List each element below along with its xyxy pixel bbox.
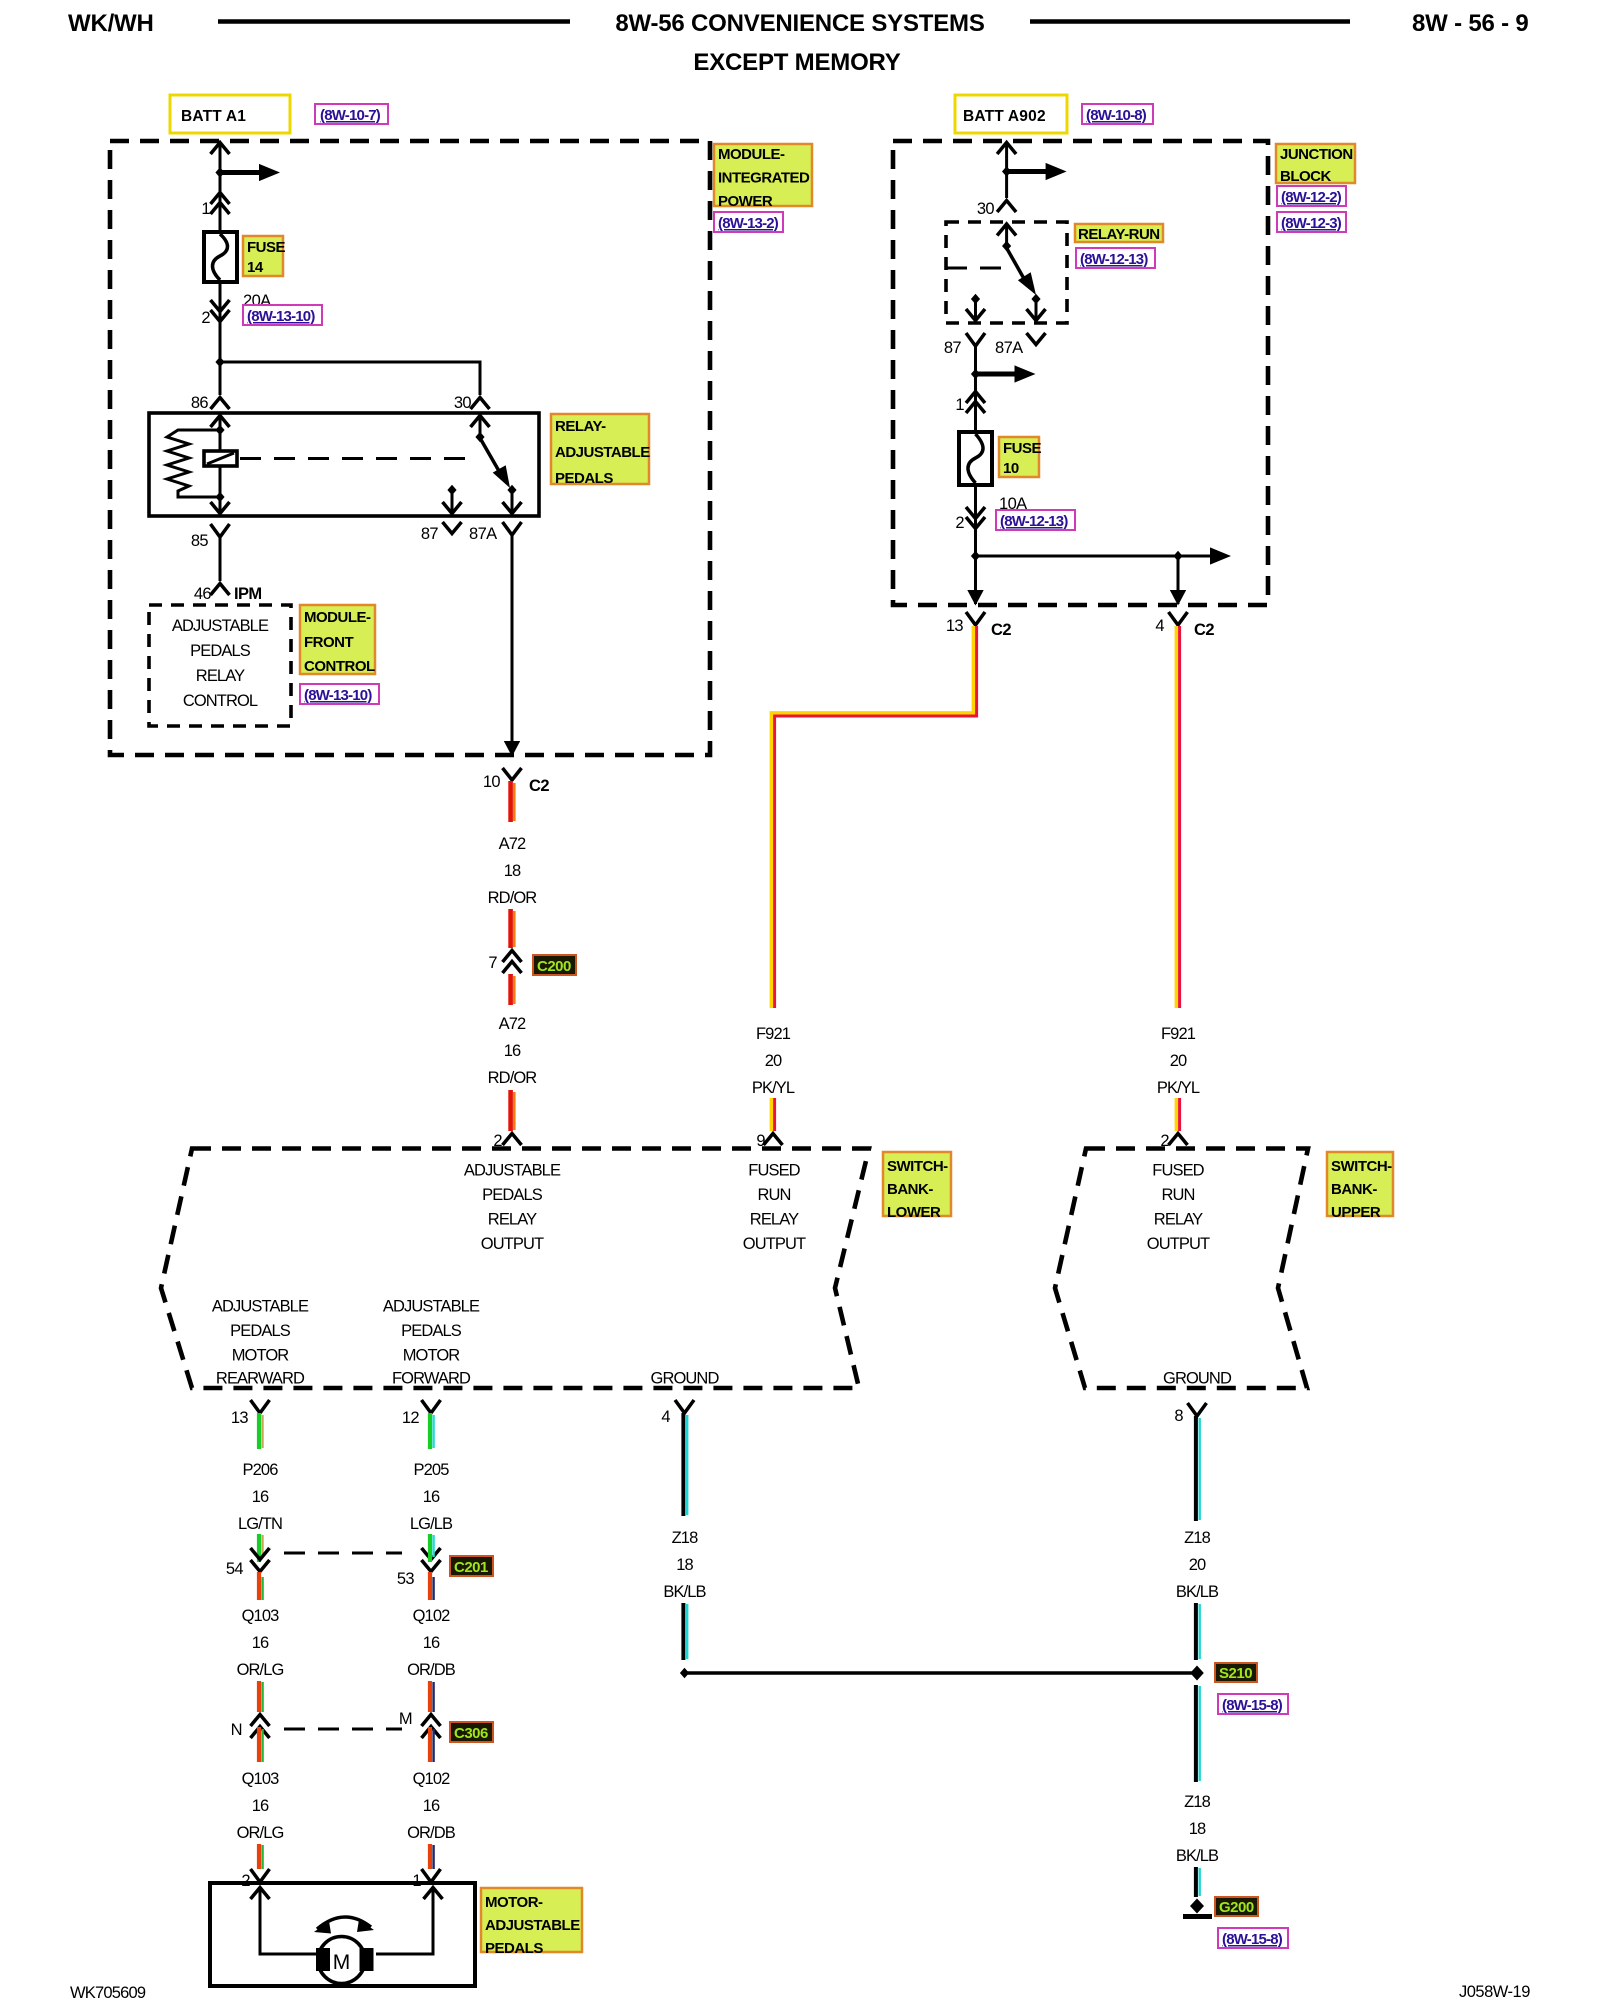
svg-text:OR/DB: OR/DB (407, 1661, 456, 1679)
footer right code (1459, 1983, 1530, 2000)
text ground upper (1163, 1370, 1232, 1388)
wire Z18 20 seg2 (1196, 1603, 1200, 1660)
svg-text:53: 53 (397, 1570, 415, 1588)
label C200 (533, 955, 576, 975)
label FUSE 10 (999, 437, 1042, 477)
wire label Z18 18 BK/LB b (1176, 1793, 1219, 1865)
svg-text:18: 18 (1189, 1820, 1206, 1838)
relay contact 30 leg (471, 414, 490, 442)
svg-text:OR/LG: OR/LG (237, 1661, 284, 1679)
wire label Q103 16 OR/LG b (237, 1770, 284, 1842)
svg-text:BLOCK: BLOCK (1280, 168, 1331, 185)
svg-text:87: 87 (421, 525, 439, 543)
svg-text:S210: S210 (1219, 1665, 1252, 1682)
svg-text:F921: F921 (1161, 1025, 1196, 1043)
svg-text:G200: G200 (1219, 1899, 1254, 1916)
link 8W-13-10 (243, 305, 322, 325)
label SWITCH-BANK-UPPER (1327, 1152, 1393, 1221)
pin 2 switch-bank-upper (1160, 1132, 1187, 1150)
svg-text:Z18: Z18 (1184, 1529, 1210, 1547)
label C201 (450, 1556, 493, 1576)
svg-text:FUSED: FUSED (748, 1162, 800, 1180)
wire label F921 20 PK/YL right (1157, 1025, 1200, 1097)
link 8W-12-13a (1076, 248, 1155, 268)
svg-text:CONTROL: CONTROL (304, 658, 375, 675)
wire Z18 seg3 (1196, 1867, 1200, 1897)
svg-text:BK/LB: BK/LB (663, 1583, 706, 1601)
wire A72 16 seg3 (511, 974, 515, 1005)
svg-text:POWER: POWER (718, 193, 773, 210)
wire A72 seg2 (511, 909, 515, 948)
svg-text:MOTOR: MOTOR (232, 1347, 290, 1365)
svg-text:A72: A72 (499, 1015, 526, 1033)
svg-text:RD/OR: RD/OR (488, 1069, 538, 1087)
motor rotation arrows (314, 1917, 374, 1934)
wire label A72 16 RD/OR (488, 1015, 538, 1087)
fuse F14 (204, 232, 237, 282)
svg-text:RD/OR: RD/OR (488, 889, 538, 907)
svg-text:(8W-10-7): (8W-10-7) (320, 107, 381, 124)
motor wires internal (251, 1888, 443, 1955)
svg-text:OR/DB: OR/DB (407, 1824, 456, 1842)
pin 2 switch-bank-lower (493, 1132, 521, 1150)
label JUNCTION BLOCK (1276, 144, 1355, 185)
relay contact 87A leg (503, 490, 522, 515)
wire Q102 seg4 (430, 1844, 434, 1869)
pin 13 C2 (946, 612, 1011, 639)
motor-adjustable pedals box (210, 1883, 475, 1986)
svg-text:18: 18 (504, 862, 521, 880)
svg-text:16: 16 (423, 1488, 440, 1506)
svg-text:30: 30 (454, 394, 472, 412)
svg-text:8: 8 (1174, 1407, 1183, 1425)
splice S210 (1190, 1666, 1204, 1681)
svg-text:BANK-: BANK- (1331, 1181, 1377, 1198)
wire label Z18 18 BK/LB (663, 1529, 706, 1601)
pin 87 junction block (944, 333, 985, 432)
pin 2 fuse10 connector (955, 507, 985, 532)
wire Q103 seg2 (259, 1681, 263, 1712)
svg-text:Q103: Q103 (242, 1607, 279, 1625)
svg-text:FUSE: FUSE (247, 239, 286, 256)
wire fuse10 down (974, 485, 977, 604)
svg-text:(8W-12-13): (8W-12-13) (1080, 251, 1148, 268)
link 8W-15-8b (1218, 1928, 1288, 1948)
svg-text:13: 13 (231, 1409, 249, 1427)
fuse F10 (959, 432, 992, 485)
node BATT A902 (955, 95, 1067, 133)
svg-text:RELAY-RUN: RELAY-RUN (1078, 226, 1160, 243)
svg-text:GROUND: GROUND (1163, 1370, 1232, 1388)
text adjustable pedals relay output (464, 1162, 561, 1254)
svg-text:PK/YL: PK/YL (752, 1079, 795, 1097)
svg-text:CONTROL: CONTROL (183, 692, 258, 710)
connector C201 link dashes (284, 1552, 402, 1555)
svg-text:1: 1 (955, 396, 964, 414)
label C306 (450, 1722, 493, 1742)
svg-text:IPM: IPM (234, 585, 262, 603)
svg-text:J058W-19: J058W-19 (1459, 1983, 1530, 2000)
footer left code (70, 1984, 146, 2000)
pin 2 inline connector (201, 300, 229, 327)
wire BATT A1 feed (211, 143, 230, 233)
pin 30 relay-run (977, 200, 1016, 218)
link 8W-10-7 (315, 104, 388, 124)
svg-text:C2: C2 (991, 621, 1011, 639)
pin 87A (469, 522, 522, 742)
svg-text:16: 16 (423, 1634, 440, 1652)
pin 8 ground upper (1174, 1403, 1206, 1425)
svg-text:16: 16 (504, 1042, 521, 1060)
link 8W-12-13b (996, 510, 1075, 530)
junction A1 with arrow (215, 164, 280, 181)
label MODULE-FRONT CONTROL (300, 605, 375, 675)
svg-text:EXCEPT MEMORY: EXCEPT MEMORY (693, 49, 900, 76)
wire Z18 seg2 (683, 1603, 687, 1660)
svg-text:OUTPUT: OUTPUT (743, 1235, 806, 1253)
splice junction lower (680, 1668, 1197, 1678)
svg-text:18: 18 (676, 1556, 693, 1574)
relay resistor (167, 430, 220, 497)
relay contact 87 leg (443, 485, 462, 515)
svg-text:(8W-12-3): (8W-12-3) (1281, 215, 1342, 232)
svg-text:WK705609: WK705609 (70, 1984, 146, 2000)
svg-text:RELAY-: RELAY- (555, 418, 606, 435)
svg-text:PEDALS: PEDALS (555, 470, 613, 487)
svg-text:20: 20 (765, 1052, 782, 1070)
svg-text:FRONT: FRONT (304, 634, 353, 651)
module-integrated power dashed box (110, 141, 710, 755)
svg-text:RUN: RUN (1161, 1186, 1194, 1204)
svg-text:M: M (333, 1951, 351, 1974)
svg-text:54: 54 (226, 1560, 244, 1578)
connector C201 pin 53 (397, 1548, 441, 1588)
pin 87 (421, 522, 462, 543)
connector C306 pin N (231, 1715, 270, 1740)
label SWITCH-BANK-LOWER (883, 1152, 951, 1221)
switch-bank-lower dashed outline (161, 1149, 869, 1389)
svg-text:C201: C201 (454, 1559, 488, 1576)
wire Q103 seg4 (259, 1844, 263, 1869)
svg-text:1: 1 (201, 200, 210, 218)
svg-text:(8W-13-2): (8W-13-2) (718, 215, 779, 232)
svg-text:20: 20 (1170, 1052, 1187, 1070)
svg-text:FUSE: FUSE (1003, 440, 1042, 457)
pin 12 motor forward (402, 1400, 441, 1427)
pin 85 (191, 524, 230, 581)
svg-text:BATT A902: BATT A902 (963, 108, 1046, 125)
junction A902 with arrow (1002, 163, 1067, 180)
svg-text:LOWER: LOWER (887, 1204, 941, 1221)
svg-text:C2: C2 (1194, 621, 1214, 639)
connector C306 link dashes (284, 1728, 402, 1731)
svg-text:(8W-15-8): (8W-15-8) (1222, 1697, 1283, 1714)
junction split to C2 pins (971, 547, 1231, 604)
svg-text:(8W-12-13): (8W-12-13) (1000, 513, 1068, 530)
wire F921 left run PK/YL (771, 626, 976, 1008)
svg-text:RELAY: RELAY (488, 1211, 537, 1229)
svg-text:46: 46 (194, 585, 212, 603)
svg-text:4: 4 (1155, 617, 1164, 635)
wire label Z18 20 BK/LB (1176, 1529, 1219, 1601)
pin 46 IPM (194, 584, 262, 604)
svg-text:Q103: Q103 (242, 1770, 279, 1788)
svg-text:ADJUSTABLE: ADJUSTABLE (485, 1917, 580, 1934)
wire Q103 seg3 (259, 1727, 263, 1762)
svg-text:2: 2 (201, 309, 210, 327)
wire exit arrows JB (967, 590, 1186, 606)
wire P205 16 LG/LB seg1 (430, 1413, 434, 1449)
svg-text:16: 16 (252, 1634, 269, 1652)
svg-text:87A: 87A (469, 525, 497, 543)
ground G200 (1183, 1899, 1212, 1917)
svg-text:8W - 56 - 9: 8W - 56 - 9 (1412, 10, 1529, 37)
wire Q103 seg1 (259, 1572, 263, 1600)
svg-text:Z18: Z18 (672, 1529, 698, 1547)
wire label F921 20 PK/YL left (752, 1025, 795, 1097)
header title row (68, 10, 1529, 76)
svg-text:C2: C2 (529, 777, 549, 795)
svg-text:(8W-13-10): (8W-13-10) (304, 687, 372, 704)
value 10A (999, 495, 1027, 513)
svg-text:2: 2 (955, 514, 964, 532)
pin 13 motor rearward (231, 1400, 270, 1427)
svg-text:PEDALS: PEDALS (190, 642, 251, 660)
svg-text:P205: P205 (414, 1461, 450, 1479)
svg-text:REARWARD: REARWARD (216, 1370, 305, 1388)
relay-run 30 leg (997, 223, 1016, 251)
label RELAY-ADJUSTABLE PEDALS (551, 414, 650, 487)
wire Q102 seg2 (430, 1681, 434, 1712)
relay-run 87 contact (966, 294, 985, 322)
svg-text:BATT A1: BATT A1 (181, 108, 246, 125)
svg-text:RELAY: RELAY (196, 667, 245, 685)
svg-text:(8W-13-10): (8W-13-10) (247, 308, 315, 325)
junction 87 arrow (971, 365, 1036, 382)
wire label Q103 16 OR/LG (237, 1607, 284, 1679)
svg-text:FUSED: FUSED (1152, 1162, 1204, 1180)
switch-bank-upper dashed outline (1055, 1149, 1308, 1389)
svg-text:(8W-12-2): (8W-12-2) (1281, 189, 1342, 206)
label G200 (1215, 1897, 1258, 1916)
pin 1 motor (412, 1869, 440, 1890)
svg-text:A72: A72 (499, 835, 526, 853)
wire label P206 16 LG/TN (238, 1461, 282, 1533)
label MODULE-INTEGRATED POWER (714, 144, 812, 210)
svg-text:RELAY: RELAY (750, 1211, 799, 1229)
relay coil branch (211, 414, 230, 515)
svg-text:87A: 87A (995, 339, 1023, 357)
pin 87A junction block (995, 333, 1046, 357)
module-front control dashed box (149, 605, 291, 726)
svg-text:BK/LB: BK/LB (1176, 1583, 1219, 1601)
junction block dashed box (893, 141, 1268, 605)
relay-run dashed stub (946, 267, 1009, 270)
relay-run dashed box (946, 222, 1067, 323)
svg-text:WK/WH: WK/WH (68, 10, 154, 37)
text adjustable pedals motor forward (383, 1298, 480, 1388)
connector C306 pin M (399, 1710, 441, 1738)
wire label Q102 16 OR/DB (407, 1607, 456, 1679)
svg-text:20: 20 (1189, 1556, 1206, 1574)
relay coil down arrow (211, 502, 230, 514)
wire Z18 18 BK/LB seg1 (683, 1413, 687, 1516)
pin 4 ground lower (661, 1400, 694, 1426)
svg-text:ADJUSTABLE: ADJUSTABLE (464, 1162, 561, 1180)
svg-text:(8W-15-8): (8W-15-8) (1222, 1931, 1283, 1948)
svg-text:30: 30 (977, 200, 995, 218)
junction to relay branch (215, 357, 480, 395)
label S210 (1215, 1663, 1257, 1682)
wire P205 seg2 (430, 1534, 434, 1562)
link 8W-12-3 (1277, 212, 1346, 232)
svg-text:16: 16 (423, 1797, 440, 1815)
svg-text:LG/LB: LG/LB (410, 1515, 453, 1533)
relay blade (480, 438, 517, 495)
pin 10 C2 (483, 768, 549, 795)
link 8W-13-10b (300, 684, 379, 704)
svg-text:ADJUSTABLE: ADJUSTABLE (212, 1298, 309, 1316)
pin 1 fuse10 connector (955, 392, 985, 415)
wire label Q102 16 OR/DB b (407, 1770, 456, 1842)
connector C201 pin 54 (226, 1548, 270, 1578)
svg-text:Q102: Q102 (413, 1607, 450, 1625)
svg-text:RUN: RUN (757, 1186, 790, 1204)
svg-text:INTEGRATED: INTEGRATED (718, 170, 810, 187)
pin 4 C2 (1155, 612, 1214, 639)
svg-text:MOTOR-: MOTOR- (485, 1894, 543, 1911)
svg-text:10: 10 (1003, 460, 1019, 477)
svg-text:PEDALS: PEDALS (401, 1322, 462, 1340)
wire fuse to relay (219, 282, 222, 395)
text fused run relay output lower (743, 1162, 806, 1254)
wire label P205 16 LG/LB (410, 1461, 453, 1533)
wire F921 right seg2 (1176, 1098, 1179, 1131)
text ground lower (651, 1370, 720, 1388)
svg-text:12: 12 (402, 1409, 420, 1427)
wire Z18 20 BK/LB seg1 (1196, 1416, 1200, 1521)
svg-text:JUNCTION: JUNCTION (1280, 146, 1353, 163)
svg-text:16: 16 (252, 1488, 269, 1506)
wire F921 right run PK/YL (1176, 626, 1179, 1008)
wire BATT A902 feed (997, 143, 1016, 199)
label MOTOR-ADJUSTABLE PEDALS (481, 1888, 582, 1957)
link 8W-13-2 (714, 212, 783, 232)
svg-text:RELAY: RELAY (1154, 1211, 1203, 1229)
svg-text:MODULE-: MODULE- (718, 146, 785, 163)
svg-text:85: 85 (191, 532, 209, 550)
wire P206 seg2 (259, 1534, 263, 1562)
svg-text:Z18: Z18 (1184, 1793, 1210, 1811)
value 20A (243, 292, 271, 310)
svg-text:BK/LB: BK/LB (1176, 1847, 1219, 1865)
connector C200 pin 7 (488, 951, 521, 974)
relay K1 box (149, 413, 539, 516)
svg-text:Q102: Q102 (413, 1770, 450, 1788)
svg-text:PK/YL: PK/YL (1157, 1079, 1200, 1097)
svg-text:LG/TN: LG/TN (238, 1515, 282, 1533)
pin 9 switch-bank-lower (756, 1132, 782, 1150)
svg-text:13: 13 (946, 617, 964, 635)
wire F921 left seg2 (771, 1098, 774, 1131)
link 8W-12-2 (1277, 186, 1346, 206)
wire 87A exit arrow (504, 741, 520, 757)
svg-text:16: 16 (252, 1797, 269, 1815)
svg-text:C200: C200 (537, 958, 571, 975)
relay-run 87A contact (1027, 300, 1046, 322)
wire P206 16 LG/TN seg1 (259, 1413, 263, 1449)
svg-text:OR/LG: OR/LG (237, 1824, 284, 1842)
svg-text:C306: C306 (454, 1725, 488, 1742)
svg-text:P206: P206 (243, 1461, 279, 1479)
pin 2 motor (241, 1869, 269, 1890)
relay-run blade (1007, 248, 1041, 304)
text adjustable pedals motor rearward (212, 1298, 309, 1388)
svg-text:ADJUSTABLE: ADJUSTABLE (383, 1298, 480, 1316)
svg-text:4: 4 (661, 1408, 670, 1426)
wire A72 seg4 (511, 1090, 515, 1131)
wire A72 18 RD/OR seg1 (511, 781, 515, 822)
label FUSE 14 (243, 236, 286, 276)
svg-text:SWITCH-: SWITCH- (887, 1158, 948, 1175)
svg-text:ADJUSTABLE: ADJUSTABLE (172, 617, 269, 635)
svg-text:MOTOR: MOTOR (403, 1347, 461, 1365)
node BATT A1 (170, 95, 290, 133)
svg-text:7: 7 (488, 954, 497, 972)
svg-text:ADJUSTABLE: ADJUSTABLE (555, 444, 650, 461)
link 8W-15-8a (1218, 1694, 1288, 1714)
link 8W-10-8 (1082, 104, 1153, 124)
svg-text:14: 14 (247, 259, 264, 276)
pin 86 (191, 394, 230, 412)
svg-text:MODULE-: MODULE- (304, 609, 371, 626)
svg-text:10: 10 (483, 773, 501, 791)
motor M1 (316, 1937, 374, 1984)
relay coil-contact dashed link (240, 457, 478, 460)
wire Z18 18 below splice (1196, 1685, 1200, 1782)
svg-text:FORWARD: FORWARD (392, 1370, 471, 1388)
text fused run relay output upper (1147, 1162, 1210, 1254)
label RELAY-RUN (1075, 224, 1163, 243)
svg-text:87: 87 (944, 339, 962, 357)
pin 1 inline connector (201, 193, 229, 219)
svg-text:OUTPUT: OUTPUT (1147, 1235, 1210, 1253)
svg-text:UPPER: UPPER (1331, 1204, 1381, 1221)
svg-text:(8W-10-8): (8W-10-8) (1086, 107, 1147, 124)
svg-text:PEDALS: PEDALS (482, 1186, 543, 1204)
wire Q102 seg1 (430, 1572, 434, 1600)
svg-text:BANK-: BANK- (887, 1181, 933, 1198)
svg-text:8W-56 CONVENIENCE SYSTEMS: 8W-56 CONVENIENCE SYSTEMS (615, 10, 984, 37)
svg-text:86: 86 (191, 394, 209, 412)
svg-text:N: N (231, 1721, 242, 1739)
svg-text:GROUND: GROUND (651, 1370, 720, 1388)
svg-text:M: M (399, 1710, 412, 1728)
wire label A72 18 RD/OR (488, 835, 538, 907)
svg-text:OUTPUT: OUTPUT (481, 1235, 544, 1253)
svg-text:F921: F921 (756, 1025, 791, 1043)
svg-text:9: 9 (756, 1132, 765, 1150)
svg-text:PEDALS: PEDALS (230, 1322, 291, 1340)
relay coil symbol (204, 451, 237, 466)
svg-text:SWITCH-: SWITCH- (1331, 1158, 1392, 1175)
svg-text:PEDALS: PEDALS (485, 1940, 543, 1957)
pin 30 (454, 394, 490, 412)
wire Q102 seg3 (430, 1727, 434, 1762)
